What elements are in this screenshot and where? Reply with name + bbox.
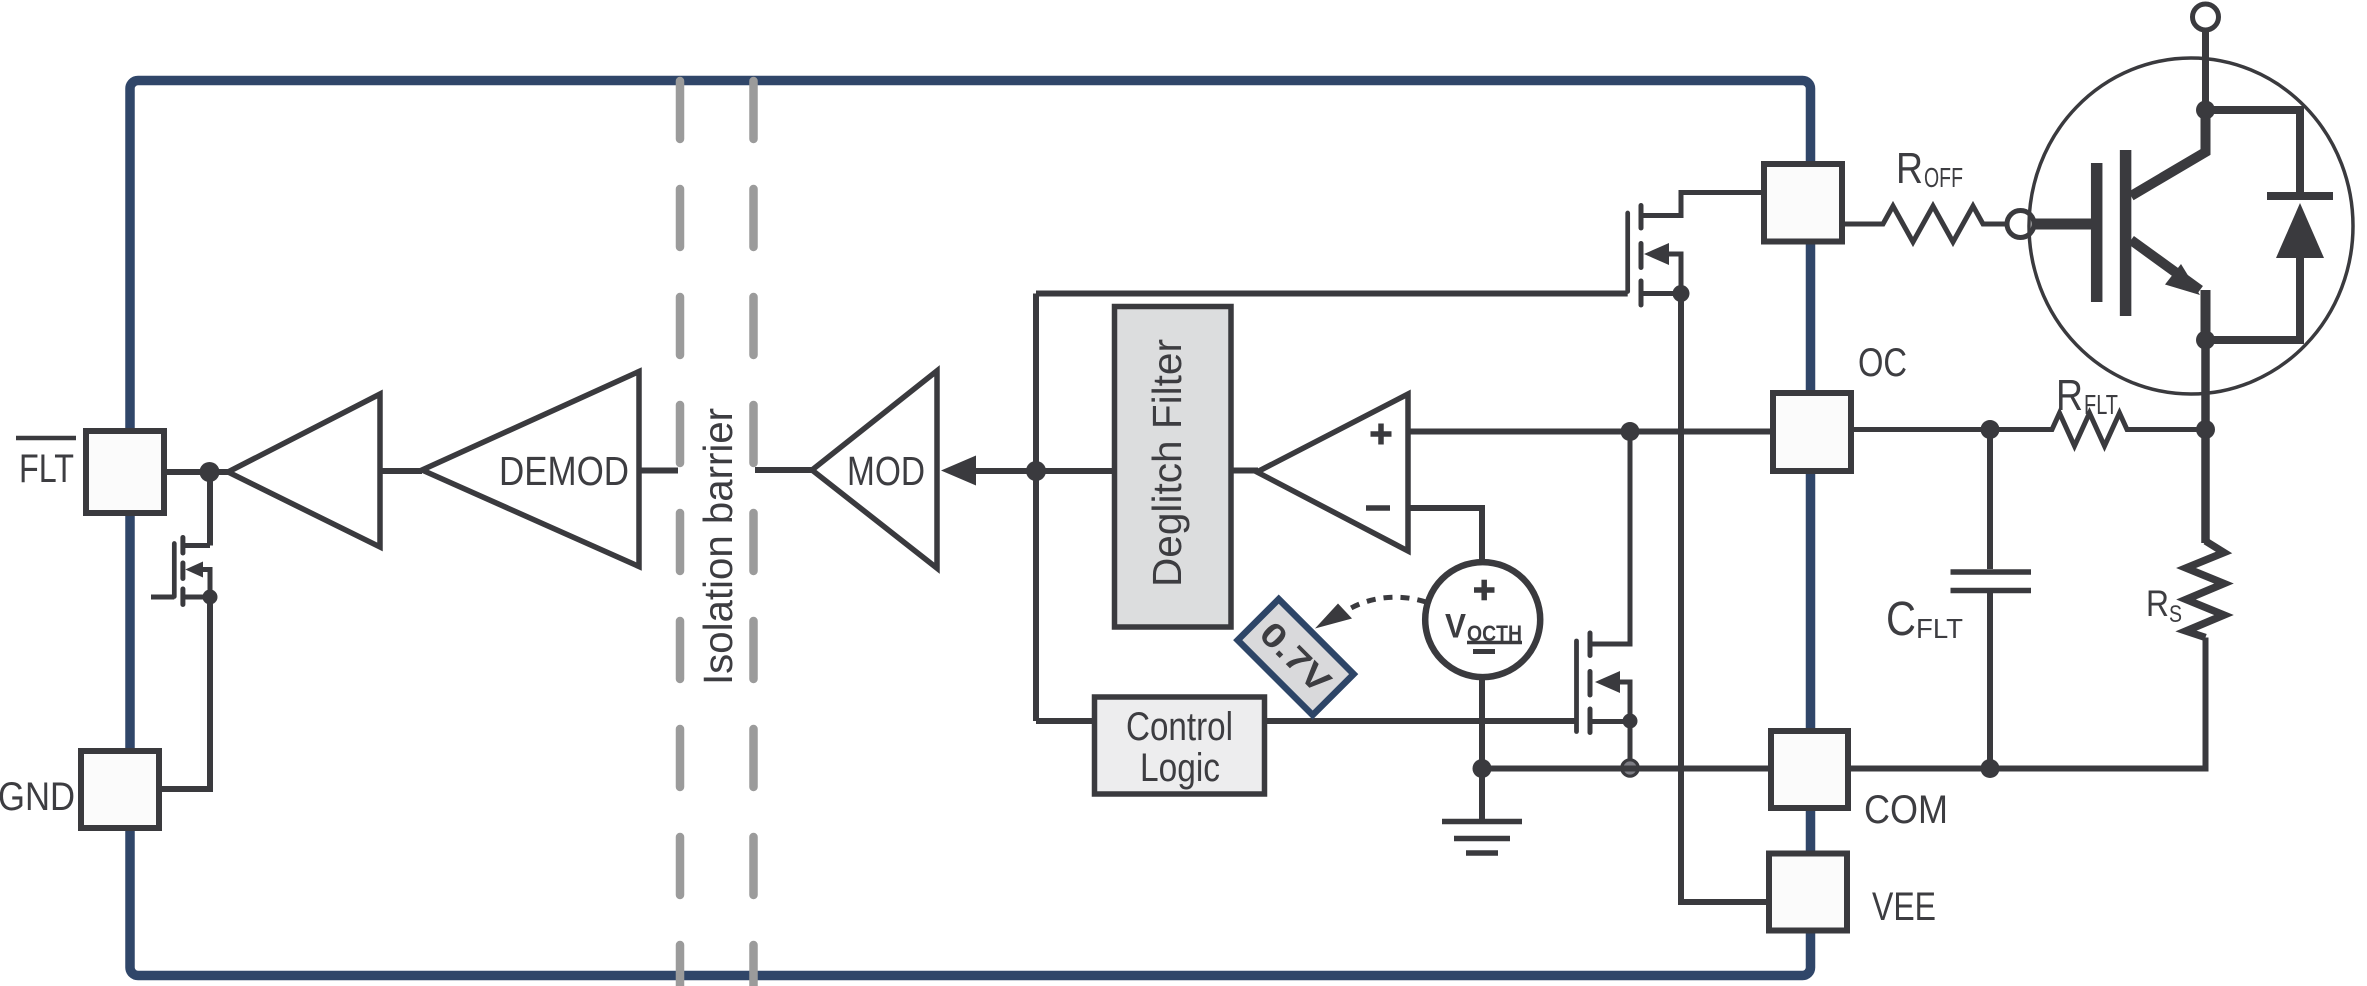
pin label FLT with overline bbox=[16, 438, 76, 491]
node F junction dot emitter RFLT bbox=[2196, 420, 2215, 439]
IC boundary (blue border) bbox=[130, 81, 1811, 976]
transistor Q4 IGBT symbol bbox=[2033, 115, 2206, 340]
svg-text:FLT: FLT bbox=[2084, 389, 2118, 420]
wire node B vertical riser bbox=[1033, 294, 1039, 722]
terminal circle collector top bbox=[2193, 4, 2219, 102]
diode D1 (antiparallel) bbox=[2206, 110, 2334, 340]
wire emitter down to RS bbox=[2201, 340, 2210, 543]
svg-text:FLT: FLT bbox=[1916, 613, 1963, 644]
collector junction dot bbox=[2196, 101, 2215, 120]
resistor RS bbox=[2146, 541, 2224, 638]
resistor RFLT bbox=[1851, 371, 2197, 446]
voltage source VOCTH bbox=[1425, 562, 1540, 677]
wire comparator plus input to OC rail bbox=[1408, 429, 1773, 435]
wire U1 base to DEMOD tip bbox=[380, 468, 422, 474]
wire MOD arrow to node B bbox=[974, 468, 1114, 474]
wire DEMOD output to isolation barrier bbox=[639, 468, 678, 474]
wire RS bottom to COM rail bbox=[1848, 638, 2206, 769]
pin box OUT (gate drive output) bbox=[1764, 164, 1842, 242]
node B junction dot bbox=[1026, 461, 1046, 481]
node D junction dot on OC rail bbox=[1621, 422, 1640, 441]
buffer U1 (unlabeled inverter triangle) bbox=[228, 394, 380, 547]
arrow into MOD input bbox=[941, 456, 976, 486]
label 0.7V bbox=[1238, 599, 1354, 715]
pin box OC bbox=[1773, 393, 1851, 471]
svg-text:C: C bbox=[1886, 593, 1916, 646]
svg-text:FLT: FLT bbox=[19, 447, 74, 491]
pin box GND bbox=[81, 751, 159, 828]
svg-text:R: R bbox=[2056, 371, 2083, 420]
svg-text:Logic: Logic bbox=[1140, 746, 1220, 790]
pin label VEE bbox=[1872, 885, 1936, 929]
svg-text:R: R bbox=[1896, 144, 1923, 193]
node G junction dot CFLT top bbox=[1981, 420, 2000, 439]
emitter junction dot bbox=[2196, 331, 2215, 350]
ground bbox=[1442, 769, 1522, 854]
svg-text:S: S bbox=[2169, 601, 2182, 628]
isolation barrier dashed line right bbox=[749, 81, 758, 986]
node A junction dot bbox=[200, 462, 220, 482]
svg-text:VEE: VEE bbox=[1872, 885, 1936, 929]
isolation barrier label bbox=[695, 408, 741, 685]
wire Control Logic to Q2 gate bbox=[1265, 718, 1579, 724]
transistor Q3 (FLT pull-down NMOS) bbox=[151, 472, 218, 789]
wire VOCTH to ground node bbox=[1479, 677, 1485, 769]
svg-text:R: R bbox=[2146, 583, 2169, 624]
svg-text:Control: Control bbox=[1126, 705, 1233, 749]
wire Deglitch right to comparator tip bbox=[1231, 468, 1258, 474]
svg-text:DEMOD: DEMOD bbox=[499, 448, 629, 494]
IGBT outline circle bbox=[2029, 58, 2353, 394]
svg-text:COM: COM bbox=[1864, 788, 1948, 832]
pin box FLT bbox=[86, 431, 164, 513]
wire comparator minus input to VOCTH bbox=[1408, 508, 1482, 564]
Control Logic block bbox=[1095, 697, 1265, 794]
svg-text:GND: GND bbox=[0, 775, 75, 819]
node E gray junction dot on COM rail bbox=[1622, 760, 1638, 776]
svg-text:Deglitch Filter: Deglitch Filter bbox=[1144, 339, 1190, 587]
open terminal circle at ROFF to gate bbox=[2007, 211, 2034, 238]
op-amp U3 MOD triangle bbox=[812, 371, 937, 568]
COM rail wire bbox=[1482, 766, 1771, 772]
pin label OC bbox=[1858, 341, 1907, 385]
isolation barrier dashed line left bbox=[676, 81, 685, 986]
op-amp U2 DEMOD triangle bbox=[422, 372, 639, 567]
wire isolation barrier to MOD tip bbox=[755, 467, 812, 473]
wire riser bottom to Control Logic bbox=[1036, 718, 1095, 724]
Deglitch Filter block bbox=[1115, 307, 1232, 628]
wire FLT pin to node A bbox=[164, 469, 228, 475]
pin box COM bbox=[1771, 731, 1848, 808]
resistor ROFF bbox=[1842, 144, 2007, 242]
capacitor CFLT bbox=[1886, 430, 2031, 769]
pin box VEE bbox=[1769, 854, 1847, 931]
wire riser top to Q1 gate bbox=[1036, 291, 1628, 297]
comparator U4 bbox=[1257, 394, 1408, 551]
transistor Q2 (lower NMOS) bbox=[1577, 432, 1638, 769]
pin label GND bbox=[0, 775, 75, 819]
wire long vertical to VEE bbox=[1681, 294, 1769, 903]
node C junction dot on COM rail bbox=[1473, 759, 1492, 778]
svg-text:MOD: MOD bbox=[847, 448, 925, 494]
dashed arrow from VOCTH to 0.7V bbox=[1315, 597, 1426, 628]
svg-text:OC: OC bbox=[1858, 341, 1907, 385]
svg-text:Isolation barrier: Isolation barrier bbox=[695, 408, 741, 685]
svg-text:OFF: OFF bbox=[1924, 162, 1963, 193]
transistor Q1 (upper NMOS) bbox=[1628, 193, 1764, 306]
svg-text:V: V bbox=[1445, 608, 1466, 646]
pin label COM bbox=[1864, 788, 1948, 832]
node H junction dot CFLT bottom bbox=[1981, 759, 2000, 778]
